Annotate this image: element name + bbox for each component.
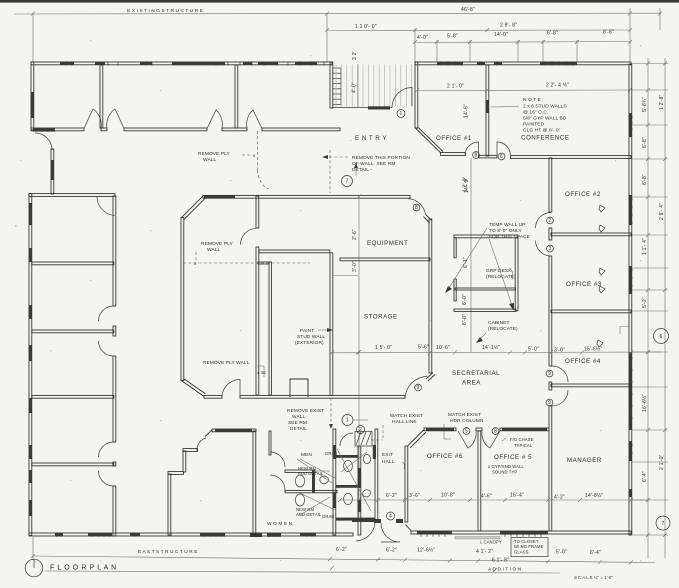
svg-text:2 1'- 0": 2 1'- 0" (447, 84, 464, 90)
door arcs womens (270, 452, 285, 467)
svg-text:x: x (253, 154, 256, 159)
svg-text:3'-0": 3'-0" (554, 348, 565, 354)
window hatch east 1 (629, 113, 632, 137)
svg-text:12'-6½": 12'-6½" (417, 547, 435, 554)
wall addition north (415, 62, 631, 65)
svg-text:2 2'- 4 ½": 2 2'- 4 ½" (546, 82, 569, 89)
stair hatch right of wing east wall (333, 67, 341, 69)
window hatch wing north 4 (172, 62, 225, 65)
svg-text:1: 1 (400, 111, 403, 117)
divider lower y395 (32, 395, 114, 398)
door arc big room south (222, 380, 240, 398)
toilet mens 2 (344, 493, 353, 504)
exit door sills (374, 519, 381, 523)
right margin dim line x665 (664, 58, 666, 558)
wall wing south seg1 (31, 128, 84, 131)
right margin ext stubs (632, 63, 668, 65)
svg-text:OFFICE #6: OFFICE #6 (427, 453, 463, 460)
svg-text:W O M E N.: W O M E N. (267, 521, 294, 527)
door arcs lower col room4 (99, 442, 114, 457)
wall lower wing top seg1 (424, 428, 456, 431)
divider lower y330 (32, 330, 114, 333)
svg-text:OFFICE #4: OFFICE #4 (565, 358, 601, 365)
wall office1 bay south (441, 153, 466, 156)
svg-text:2 x 6 STUD WALLS: 2 x 6 STUD WALLS (523, 104, 567, 110)
door arc mens (340, 433, 353, 446)
svg-text:7: 7 (346, 179, 349, 185)
svg-text:GRAB: GRAB (322, 514, 334, 519)
desk doodles office3 (599, 268, 605, 275)
dashed arrow removed wall x331 low (330, 398, 332, 425)
svg-text:F/G CHASE: F/G CHASE (510, 437, 534, 442)
svg-text:1 2'-8": 1 2'-8" (659, 94, 665, 110)
window hatch wing north 1 (60, 62, 74, 65)
hatch divider office1/conference (486, 100, 489, 113)
title circle floor plan (25, 559, 43, 577)
svg-text:WALL: WALL (292, 414, 306, 420)
wall restroom east x375 (375, 429, 378, 521)
svg-text:PAINTED: PAINTED (523, 122, 545, 128)
stub line y275 storage (333, 275, 358, 277)
window tick marks east wall (629, 116, 633, 118)
toilet womens 2 (295, 494, 304, 506)
door arc office2 (536, 213, 552, 229)
svg-text:6'-0": 6'-0" (462, 294, 468, 305)
svg-text:8: 8 (475, 152, 478, 158)
ext line x518 (517, 40, 519, 62)
svg-text:(RELOCATE): (RELOCATE) (486, 274, 516, 280)
restroom hall dark sill y533 extra (300, 533, 316, 537)
svg-text:3'-6": 3'-6" (409, 493, 420, 499)
svg-text:5/8" GYP WALL BD: 5/8" GYP WALL BD (523, 116, 567, 122)
wall lower block north (29, 194, 115, 197)
svg-text:REMOVE PLY: REMOVE PLY (201, 241, 234, 247)
walkway sill line (333, 107, 392, 109)
svg-text:REMOVE THIS PORTION: REMOVE THIS PORTION (352, 155, 410, 161)
svg-text:4'-2": 4'-2" (554, 495, 565, 501)
wall lower block east x113 seg1 (113, 196, 116, 306)
wall big room south seg2 (240, 395, 405, 398)
svg-text:6'-2": 6'-2" (386, 493, 397, 499)
svg-text:2: 2 (359, 427, 362, 433)
window hatch east 6 (629, 489, 632, 497)
window hatch east 4 (629, 352, 632, 430)
svg-text:3'-0": 3'-0" (352, 261, 358, 272)
ext line left bottom (32, 537, 34, 560)
kitchenette north wall (454, 235, 518, 238)
wall big room south seg1 (204, 395, 222, 398)
svg-text:TYPICAL: TYPICAL (514, 443, 533, 448)
svg-text:F L O O R P L A N: F L O O R P L A N (50, 565, 117, 572)
svg-text:10'-8": 10'-8" (441, 493, 455, 499)
svg-text:HALL: HALL (382, 459, 395, 465)
ext line left x33 (32, 13, 34, 62)
dark seg big room north (204, 195, 235, 198)
door lower wing 8 (482, 431, 500, 448)
window hatch wing north 2 (95, 62, 105, 65)
door leaf+arc wing d3 (207, 110, 222, 129)
window hatch addition north small (477, 62, 485, 65)
window hatch addition north 2 (540, 62, 577, 65)
wall bottom under restrooms (253, 533, 353, 536)
wall seg between doors 8 and 6 (479, 155, 498, 158)
divider lower y262 (32, 262, 114, 265)
window hatch wing west (31, 92, 34, 118)
svg-text:TO 8'-0" ONLY: TO 8'-0" ONLY (489, 228, 522, 234)
svg-text:14'-6": 14'-6" (464, 104, 470, 118)
svg-text:OFFICE # 5: OFFICE # 5 (494, 454, 532, 461)
wall chase stub small (258, 262, 269, 264)
svg-text:x: x (194, 262, 197, 267)
wall wing south post1 (101, 128, 107, 131)
svg-text:5'-0": 5'-0" (528, 347, 539, 353)
svg-text:5'-6": 5'-6" (418, 345, 429, 351)
exit door arc outward (381, 523, 400, 542)
svg-text:REMOVE PLY WALL: REMOVE PLY WALL (203, 360, 250, 366)
wall restroom mid x333 (333, 429, 336, 535)
door arc office3 (536, 241, 552, 257)
wall wing divider x235 (235, 65, 238, 128)
svg-text:OFFICE #2: OFFICE #2 (565, 191, 601, 198)
leader temp wall diagonals (447, 228, 487, 291)
svg-text:± 5c: ± 5c (257, 370, 267, 376)
dim line overall top y13 (14, 12, 661, 15)
window hatch addition north 1 (437, 62, 463, 65)
svg-text:TEMP WALL UP: TEMP WALL UP (489, 222, 525, 228)
divider lower y463 (32, 463, 114, 466)
svg-text:3 2': 3 2' (352, 51, 358, 60)
svg-text:(EXTERIOR): (EXTERIOR) (295, 340, 324, 346)
wall restroom west x253 (253, 431, 256, 535)
window darks south offices (417, 531, 452, 535)
dim line bottom2 y571 (45, 571, 560, 573)
svg-text:HDR COLUMN: HDR COLUMN (450, 418, 484, 424)
sink womens (320, 476, 329, 484)
wall corridor x549 seg3 (549, 256, 552, 366)
door arc manager (552, 390, 568, 406)
svg-text:OFFICE #1: OFFICE #1 (436, 135, 472, 142)
leader paint stud arrow (318, 329, 331, 331)
ext line x470 (469, 40, 471, 62)
window darks bottom left (55, 533, 63, 537)
svg-text:S C A L E ¼" = 1'-0": S C A L E ¼" = 1'-0" (574, 575, 613, 580)
svg-text:(RELOCATE): (RELOCATE) (488, 326, 518, 332)
wall chase west x256 seg2 (256, 247, 259, 395)
partitions mens dark bands (336, 455, 358, 458)
svg-text:GLASS: GLASS (514, 550, 529, 555)
leader diagonals restrooms (300, 459, 335, 478)
svg-text:ADD DETAIL: ADD DETAIL (296, 512, 322, 517)
svg-text:E A S T S T R U C T U R E: E A S T S T R U C T U R E (138, 549, 198, 555)
wall lower wing top seg2 (500, 428, 549, 431)
wall storage east x429 (429, 219, 432, 373)
keynote circle 6 right margin (654, 329, 669, 344)
wall bevel NW big room (181, 196, 203, 218)
wall vestibule vert x168 (168, 474, 171, 535)
wall corridor x549 seg1 (549, 158, 552, 212)
svg-text:STORAGE: STORAGE (364, 314, 398, 321)
wall exit hall east x405 (405, 446, 408, 522)
leader note arrow to divider (491, 106, 519, 109)
svg-text:14'-8½": 14'-8½" (585, 492, 603, 499)
svg-text:14'-0": 14'-0" (494, 32, 508, 38)
svg-text:6'-1": 6'-1" (463, 257, 469, 268)
wall south offices (411, 531, 631, 534)
window hatch east 2 (629, 195, 632, 225)
keynote circle right margin lower (656, 516, 670, 530)
dim line y30 (327, 29, 630, 32)
window hatch wing north 6 (258, 62, 278, 65)
svg-text:6'-8": 6'-8" (642, 174, 648, 185)
window hatch wing north 7 (295, 62, 317, 65)
svg-text:MATCH EXIST: MATCH EXIST (390, 413, 423, 419)
ext line x327 entry (326, 13, 328, 62)
door leaf+arc wing d1 (84, 109, 101, 129)
keynote circle 1 large (342, 415, 353, 426)
wall big room north (203, 195, 410, 198)
door arc west wing to lower block (35, 133, 52, 150)
toilet mens 1 (344, 460, 353, 471)
keynote circle 7 with arrow (342, 176, 353, 187)
svg-text:REMOVE EXIST: REMOVE EXIST (287, 408, 324, 414)
svg-text:STUD WALL: STUD WALL (297, 334, 325, 340)
svg-text:6'-4": 6'-4" (590, 550, 601, 556)
desk doodles office4 (597, 340, 603, 347)
dashed removed wall x330 (329, 150, 331, 193)
svg-text:3: 3 (549, 246, 552, 252)
wall lower block west (29, 194, 32, 536)
dim line interior y90 (417, 89, 630, 92)
ext line x437 (436, 40, 438, 62)
wall vestibule jog2 (168, 472, 184, 475)
wall vestibule vert x183 (183, 451, 186, 472)
wall addition west (office1) (415, 62, 418, 128)
wall chase stub y250 (259, 250, 330, 253)
svg-text:16'-4": 16'-4" (510, 493, 524, 499)
svg-text:WALL: WALL (203, 157, 217, 163)
svg-text:FOR THIS SPACE: FOR THIS SPACE (489, 234, 530, 240)
window hatch wing north 5 (243, 62, 252, 65)
svg-text:15'-6½": 15'-6½" (584, 346, 602, 353)
wall bevel NE equipment (426, 214, 432, 220)
wall lower block east x113 seg2 (113, 326, 116, 336)
window sill dark wing south left (33, 128, 55, 131)
wall vestibule jog horiz (183, 449, 198, 452)
svg-text:DETAIL: DETAIL (290, 426, 307, 432)
extra restroom darks and fixtures (373, 445, 376, 459)
wall wing south seg2 (124, 128, 207, 131)
svg-text:@ 16" O.C.: @ 16" O.C. (523, 110, 548, 116)
svg-text:4'-6": 4'-6" (481, 494, 492, 500)
dim line y42 (415, 42, 630, 43)
svg-text:2'-6": 2'-6" (352, 229, 358, 240)
wall wing north (31, 62, 332, 65)
wall wing divider x100 (100, 65, 103, 128)
window tick marks bottom walls (56, 533, 58, 537)
svg-text:L CANOPY: L CANOPY (480, 540, 502, 545)
wall storage west x330 (330, 253, 333, 396)
svg-text:8'-8": 8'-8" (603, 30, 614, 36)
sheet top border bar (0, 0, 679, 3)
door arc chase (241, 229, 257, 245)
dashed removed wall x257 top (257, 131, 259, 170)
tick cross x332 y352 (330, 351, 334, 355)
door arc vestibule (197, 438, 207, 451)
svg-text:5'-8¾": 5'-8¾" (642, 97, 648, 112)
svg-text:14'- 0": 14'- 0" (464, 177, 470, 193)
wall equipment/storage divider y258 (340, 258, 430, 261)
svg-text:MEN: MEN (301, 452, 312, 458)
window hatch wing north 3 (140, 62, 152, 65)
svg-text:OFFICE #3: OFFICE #3 (566, 281, 602, 288)
svg-text:46'-8": 46'-8" (461, 7, 475, 13)
bevel office6 NW (408, 430, 424, 446)
svg-text:5'-8": 5'-8" (447, 34, 458, 40)
closet hatch box keynote 2 (355, 431, 372, 446)
wall office1 bay bevel (415, 128, 440, 153)
svg-text:6'-8": 6'-8" (642, 137, 648, 148)
svg-text:6 1'- 8": 6 1'- 8" (492, 558, 509, 564)
svg-text:N O T E :: N O T E : (523, 97, 544, 103)
bevel lower bay left (205, 429, 212, 436)
svg-text:4: 4 (389, 513, 392, 519)
svg-text:E X I S T I N G S T R U C T: E X I S T I N G S T R U C T U R E. (127, 8, 205, 14)
svg-text:9: 9 (548, 400, 551, 406)
svg-text:7: 7 (662, 521, 665, 527)
door arc storage south tag 9 (405, 376, 428, 398)
svg-text:MANAGER: MANAGER (567, 457, 602, 464)
svg-text:6'-8": 6'-8" (547, 31, 558, 37)
hatch wall jog (51, 160, 54, 180)
wall divider office4/manager (551, 384, 631, 387)
svg-text:HALL LINE: HALL LINE (392, 419, 417, 425)
door arc equipment NE tag 8 (408, 199, 426, 215)
svg-text:8: 8 (415, 205, 418, 211)
leader remove portion (324, 156, 349, 158)
svg-text:6: 6 (660, 334, 663, 340)
window hatch east 3 (629, 266, 632, 294)
svg-text:2: 2 (549, 218, 552, 224)
window hatches lower west (29, 203, 32, 225)
svg-text:10'-6": 10'-6" (436, 345, 450, 351)
wall chase east x269 (269, 262, 271, 395)
svg-text:6'-4": 6'-4" (642, 471, 648, 482)
walkway sill dark (368, 106, 390, 109)
window tick marks addition north wall (440, 61, 442, 65)
svg-text:W/ NO FRAME: W/ NO FRAME (514, 544, 544, 549)
wall wing south post2 (222, 128, 247, 131)
svg-text:1 5'- 0": 1 5'- 0" (375, 345, 392, 351)
window darks bottom vestibule (200, 533, 225, 537)
ext line x543 (542, 40, 544, 62)
L mark match leader near east wall (620, 327, 629, 335)
toilet womens 1 (295, 475, 304, 487)
wall divider office3/4 (551, 310, 631, 313)
desk doodles office2 (599, 205, 605, 212)
wall divider office2/3 (551, 233, 631, 236)
door leaf+arc wing d2 (107, 109, 124, 129)
door leaf+arc wing d4 (247, 110, 262, 129)
wall lower block east x113 seg3 (113, 356, 116, 442)
dim v-line x471 (470, 158, 472, 352)
svg-text:4'-0": 4'-0" (417, 35, 428, 41)
svg-text:9: 9 (548, 371, 551, 377)
wall east outer (629, 64, 632, 535)
svg-text:2 9'- 8": 2 9'- 8" (500, 23, 517, 29)
door tag circle 1 (397, 110, 405, 118)
wall divider office6/5 (478, 431, 481, 531)
keynote circle 2 (357, 426, 365, 434)
kitchenette south wall (454, 309, 516, 311)
small column nook south wall (290, 379, 308, 397)
leader remove ply mid (195, 252, 197, 262)
svg-text:CONFERENCE: CONFERENCE (521, 135, 569, 142)
wall divider office1/conference x486 (486, 65, 489, 156)
exit wall y519 (352, 519, 376, 522)
dim line bottom y556 (33, 556, 655, 563)
svg-text:SOUND TYP: SOUND TYP (492, 470, 517, 475)
svg-text:6: 6 (500, 154, 503, 160)
partition womens y470 (285, 470, 315, 472)
leader remove ply lower bracket (257, 365, 264, 367)
window hatch east 5 (629, 441, 632, 461)
dim v-line entry x358 (357, 64, 359, 107)
second outward arc (356, 523, 375, 541)
wall big room west (181, 218, 184, 381)
svg-text:16'-6½": 16'-6½" (641, 394, 648, 412)
to closet box (511, 538, 548, 557)
wall jog x51 (51, 149, 54, 194)
svg-text:2 9'- 4": 2 9'- 4" (659, 203, 665, 220)
right margin dim line x648 (647, 58, 649, 558)
wall wing east / walkway west (330, 62, 333, 108)
svg-text:GRP DESK: GRP DESK (486, 268, 512, 274)
svg-text:ADD DETAIL: ADD DETAIL (298, 471, 324, 476)
wall corridor x549 seg4 (549, 382, 552, 390)
svg-text:1 1 0'- 0": 1 1 0'- 0" (355, 24, 377, 30)
kitchenette shelf (455, 288, 516, 290)
svg-text:1: 1 (346, 418, 349, 424)
wall chase west x256 seg1 (256, 196, 259, 228)
wall wing west (31, 62, 34, 130)
svg-text:4'-0": 4'-0" (352, 82, 358, 93)
door arc lower block north (97, 197, 115, 216)
svg-text:EQUIPMENT: EQUIPMENT (367, 240, 408, 247)
svg-text:5'-0": 5'-0" (556, 550, 567, 556)
keynote circle 4 exit (387, 512, 395, 520)
door arc office4 (552, 366, 568, 382)
canopy hatch strip (455, 537, 500, 540)
svg-text:OF WALL. SEE RM: OF WALL. SEE RM (352, 161, 395, 167)
wall wing south seg3 (262, 128, 340, 131)
door arcs lower col room2 (99, 306, 114, 321)
entry door arc (392, 88, 412, 108)
svg-text:AREA: AREA (462, 380, 481, 387)
kitchenette west wall seg1 (454, 238, 456, 258)
svg-text:5'-2": 5'-2" (642, 297, 648, 308)
svg-text:14'-1½": 14'-1½" (482, 344, 500, 351)
ext line x660 right (659, 8, 661, 30)
kitchenette west wall seg2 (454, 279, 456, 301)
wall bottom under vestibule (171, 533, 253, 536)
wall bevel SW big room (181, 381, 203, 397)
door office1 arc tag 8 (465, 142, 479, 156)
svg-text:SEE RM: SEE RM (288, 420, 307, 426)
ext line x630 NE corner (629, 8, 631, 62)
svg-text:2 1'-0": 2 1'-0" (659, 454, 665, 470)
svg-text:5: 5 (465, 428, 468, 434)
wall post between doors (476, 428, 482, 431)
